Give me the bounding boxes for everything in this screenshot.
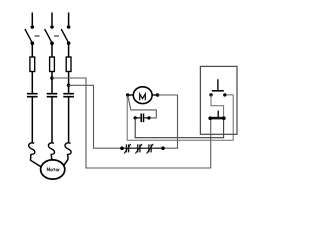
node L1 terminal dot xyxy=(31,25,35,29)
wire fuse1 to contact1 xyxy=(31,72,33,94)
node coil M left dot xyxy=(126,93,130,97)
wire coil M left hook to aux contact right xyxy=(128,96,156,118)
supply line L2 stub xyxy=(51,13,53,26)
overload contacts inner wire to right dot xyxy=(151,147,163,149)
wire fuse3 to contact3 xyxy=(68,72,70,94)
contactor main contact M pole 2 xyxy=(47,94,58,97)
aux contact M right dot xyxy=(147,116,150,119)
overload heater OL pole 3 xyxy=(65,143,71,155)
contactor main contact M pole 1 xyxy=(27,94,38,97)
node overload contacts left dot xyxy=(120,146,124,150)
supply line L1 stub xyxy=(31,13,33,26)
wire coil M right to overload contacts right (net4) xyxy=(158,95,178,148)
wire switch2 to fuse2 xyxy=(51,43,53,57)
wire contact3 down xyxy=(68,97,70,143)
node coil M right dot xyxy=(156,93,160,97)
wire heater1 to motor xyxy=(31,154,44,168)
wire control hot L1: tap line2 right, down, along bottom, up to stop button left xyxy=(52,78,211,168)
disconnect switch blade pole 3 xyxy=(61,29,68,43)
switch hinge dot pole 3 xyxy=(67,41,71,45)
wire contact1 down xyxy=(31,97,33,143)
node L3 terminal dot xyxy=(67,25,71,29)
disconnect switch blade pole 2 xyxy=(45,29,52,43)
wire start right down to coil M left (net3) xyxy=(127,95,233,140)
aux contact M bars xyxy=(141,114,143,123)
node start right dot xyxy=(223,93,226,96)
overload NC contact 2 xyxy=(129,144,142,154)
pushbutton station box xyxy=(200,66,237,134)
wire control return L2: tap line3 right, down to overload contacts left xyxy=(69,85,121,148)
node stop left dot xyxy=(208,116,212,120)
overload heater OL pole 1 xyxy=(29,143,35,155)
coil M circle xyxy=(133,87,152,104)
wire switch1 to fuse1 xyxy=(31,43,33,57)
overload NC contact 3 xyxy=(140,144,153,154)
wire switch3 to fuse3 xyxy=(68,43,70,57)
wire start left to stop right xyxy=(211,95,224,118)
overload heater OL pole 2 xyxy=(48,143,54,155)
fuse F2 xyxy=(50,57,55,72)
fuse F1 xyxy=(30,57,35,72)
aux contact M left dot xyxy=(134,116,137,119)
aux contact M stubs xyxy=(135,117,149,119)
disconnect switch blade pole 1 xyxy=(25,29,32,43)
coil M letter xyxy=(140,94,146,100)
fuse F3 xyxy=(66,57,71,72)
node control tap on line 3 xyxy=(67,84,71,88)
node L2 terminal dot xyxy=(50,25,54,29)
wire aux contact left down to stop button right (net2) xyxy=(135,119,223,138)
supply line L3 stub xyxy=(68,13,70,26)
node overload contacts right dot xyxy=(161,146,165,150)
coil M left stub xyxy=(128,94,134,96)
switch mechanical link (dashed) xyxy=(35,35,60,37)
start pushbutton bar xyxy=(212,90,224,92)
motor label xyxy=(47,168,60,171)
node start left dot xyxy=(209,93,212,96)
start pushbutton stem xyxy=(217,79,219,90)
wire fuse2 to contact2 xyxy=(51,72,53,94)
stop pushbutton bar xyxy=(210,117,224,120)
overload NC contact 1 xyxy=(122,144,131,154)
switch hinge dot pole 1 xyxy=(31,41,35,45)
wire heater2 to motor xyxy=(50,154,53,161)
stop pushbutton stem xyxy=(217,111,219,117)
contactor main contact M pole 3 xyxy=(63,94,74,97)
node control tap on line 2 xyxy=(50,76,54,80)
motor xyxy=(41,160,65,179)
wire heater3 to motor xyxy=(63,154,68,166)
switch hinge dot pole 2 xyxy=(50,41,54,45)
coil M right stub xyxy=(152,94,158,96)
wire contact2 down xyxy=(51,97,53,143)
node stop right dot xyxy=(222,116,226,120)
